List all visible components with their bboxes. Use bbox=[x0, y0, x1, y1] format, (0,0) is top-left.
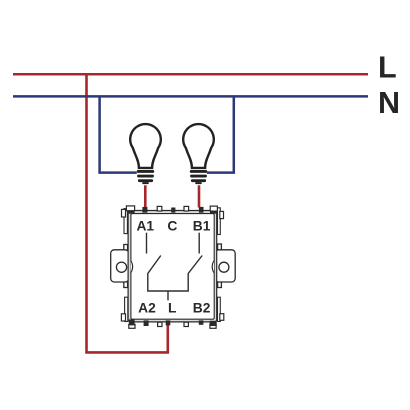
svg-text:L: L bbox=[168, 301, 176, 316]
svg-text:L: L bbox=[378, 51, 397, 85]
svg-text:A2: A2 bbox=[138, 301, 156, 316]
svg-text:B1: B1 bbox=[193, 219, 211, 234]
svg-text:A1: A1 bbox=[136, 219, 154, 234]
svg-text:C: C bbox=[167, 219, 177, 234]
svg-text:N: N bbox=[378, 86, 400, 120]
svg-text:B2: B2 bbox=[193, 301, 211, 316]
